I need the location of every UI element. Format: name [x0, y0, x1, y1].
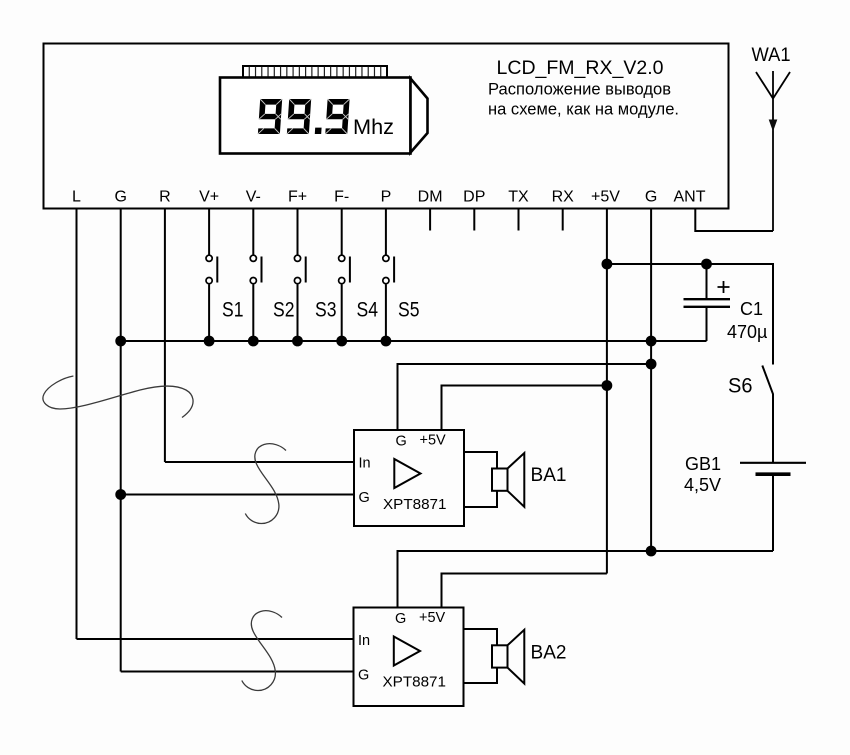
svg-text:BA2: BA2 — [531, 643, 567, 664]
LCD display body — [220, 78, 428, 154]
wire battery minus to G net — [398, 551, 774, 608]
svg-text:WA1: WA1 — [752, 45, 791, 66]
svg-text:4,5V: 4,5V — [684, 475, 721, 495]
svg-text:Расположение выводов: Расположение выводов — [488, 80, 671, 99]
svg-text:ANT: ANT — [674, 189, 706, 206]
switch S4 — [339, 209, 350, 342]
junction S3 bus — [292, 336, 303, 347]
svg-text:GB1: GB1 — [685, 454, 721, 474]
svg-text:DM: DM — [418, 189, 443, 206]
wire pin DM stub — [429, 209, 431, 231]
switch S3 — [294, 209, 305, 342]
speaker BA1 wires — [464, 452, 497, 507]
junction S2 bus — [248, 336, 259, 347]
battery GB1 — [740, 463, 806, 551]
switch S2 — [250, 209, 261, 342]
switch S1 — [206, 209, 217, 342]
svg-text:DP: DP — [463, 189, 485, 206]
svg-text:G: G — [645, 189, 657, 206]
svg-text:L: L — [72, 189, 81, 206]
wire amp1 G up to G rail — [398, 364, 652, 430]
wire G to amp1 G — [121, 494, 354, 496]
junction G2 bottom — [646, 546, 657, 557]
wire pin G2 rail — [650, 209, 652, 552]
wire pin L vertical — [76, 209, 78, 640]
wire G to amp2 G — [121, 671, 354, 673]
wire pin G vertical — [120, 209, 122, 672]
svg-text:G: G — [114, 189, 126, 206]
svg-text:S3: S3 — [315, 298, 337, 322]
junction amp1 G rail — [646, 359, 657, 370]
wire squiggle top-left — [43, 376, 193, 418]
antenna arrow — [769, 120, 778, 132]
wire pin RX stub — [562, 209, 564, 231]
junction S1 bus — [204, 336, 215, 347]
junction S4 bus — [336, 336, 347, 347]
module LCD_FM_RX_V2.0 box — [44, 44, 729, 209]
junction G2 bus — [646, 336, 657, 347]
svg-text:P: P — [381, 189, 392, 206]
svg-text:LCD_FM_RX_V2.0: LCD_FM_RX_V2.0 — [497, 57, 664, 79]
svg-text:+5V: +5V — [420, 433, 447, 449]
speaker BA2 wires — [464, 629, 498, 683]
svg-text:XPT8871: XPT8871 — [383, 496, 447, 513]
svg-text:G: G — [395, 611, 406, 627]
svg-text:S6: S6 — [728, 374, 753, 398]
svg-text:+5V: +5V — [419, 610, 446, 626]
svg-text:XPT8871: XPT8871 — [383, 673, 447, 690]
svg-text:на схеме, как на модуле.: на схеме, как на модуле. — [488, 100, 679, 119]
amp2 triangle symbol — [394, 637, 420, 666]
speaker BA2 symbol — [492, 630, 524, 684]
wire pin TX stub — [518, 209, 520, 231]
wire squiggle amp2 input — [242, 611, 282, 691]
svg-text:+5V: +5V — [591, 189, 620, 206]
svg-text:Mhz: Mhz — [353, 116, 394, 139]
capacitor C1 — [684, 264, 731, 341]
svg-text:S4: S4 — [357, 298, 379, 322]
switch S5 — [383, 209, 394, 342]
antenna WA1 — [756, 71, 790, 231]
wire pin +5V rail — [606, 209, 608, 574]
svg-text:C1: C1 — [740, 299, 763, 319]
wire amp1 +5V to rail — [442, 386, 607, 431]
wire ground bus — [121, 340, 707, 342]
svg-text:S5: S5 — [398, 298, 420, 322]
junction C1 top — [701, 259, 712, 270]
wire pin DP stub — [473, 209, 475, 231]
wire squiggle amp1 input — [245, 444, 286, 524]
amplifier U1 XPT8871 box — [354, 430, 464, 526]
svg-text:In: In — [358, 633, 370, 649]
svg-text:470µ: 470µ — [727, 322, 767, 342]
junction G-bus — [115, 336, 126, 347]
wire R to amp1 In — [165, 461, 354, 463]
svg-text:G: G — [359, 490, 370, 506]
svg-text:V+: V+ — [199, 189, 219, 206]
amplifier U2 XPT8871 box — [354, 608, 464, 707]
junction +5V rail top — [602, 259, 613, 270]
switch S6 — [762, 366, 773, 463]
speaker BA1 symbol — [492, 453, 524, 507]
svg-text:BA1: BA1 — [531, 465, 567, 486]
svg-text:G: G — [358, 668, 369, 684]
svg-text:V-: V- — [246, 189, 261, 206]
LCD connector strip — [243, 66, 387, 78]
junction S5 bus — [381, 336, 392, 347]
svg-text:In: In — [359, 456, 371, 472]
wire +5V rail to amp2 +5V — [442, 574, 607, 608]
junction G rail amp1 — [115, 489, 126, 500]
junction amp1 +5V rail — [602, 380, 613, 391]
amp1 triangle symbol — [394, 459, 420, 488]
wire L to amp2 In — [77, 638, 354, 640]
wire pin ANT down — [695, 209, 773, 232]
svg-text:G: G — [396, 434, 407, 450]
svg-text:F+: F+ — [288, 189, 307, 206]
wire pin R vertical — [164, 209, 166, 463]
svg-text:S2: S2 — [273, 298, 295, 322]
svg-text:R: R — [159, 189, 171, 206]
svg-text:F-: F- — [334, 189, 349, 206]
svg-text:TX: TX — [508, 189, 529, 206]
wire +5V horizontal to right rail — [607, 264, 773, 365]
svg-text:RX: RX — [552, 189, 575, 206]
svg-text:S1: S1 — [222, 298, 244, 322]
